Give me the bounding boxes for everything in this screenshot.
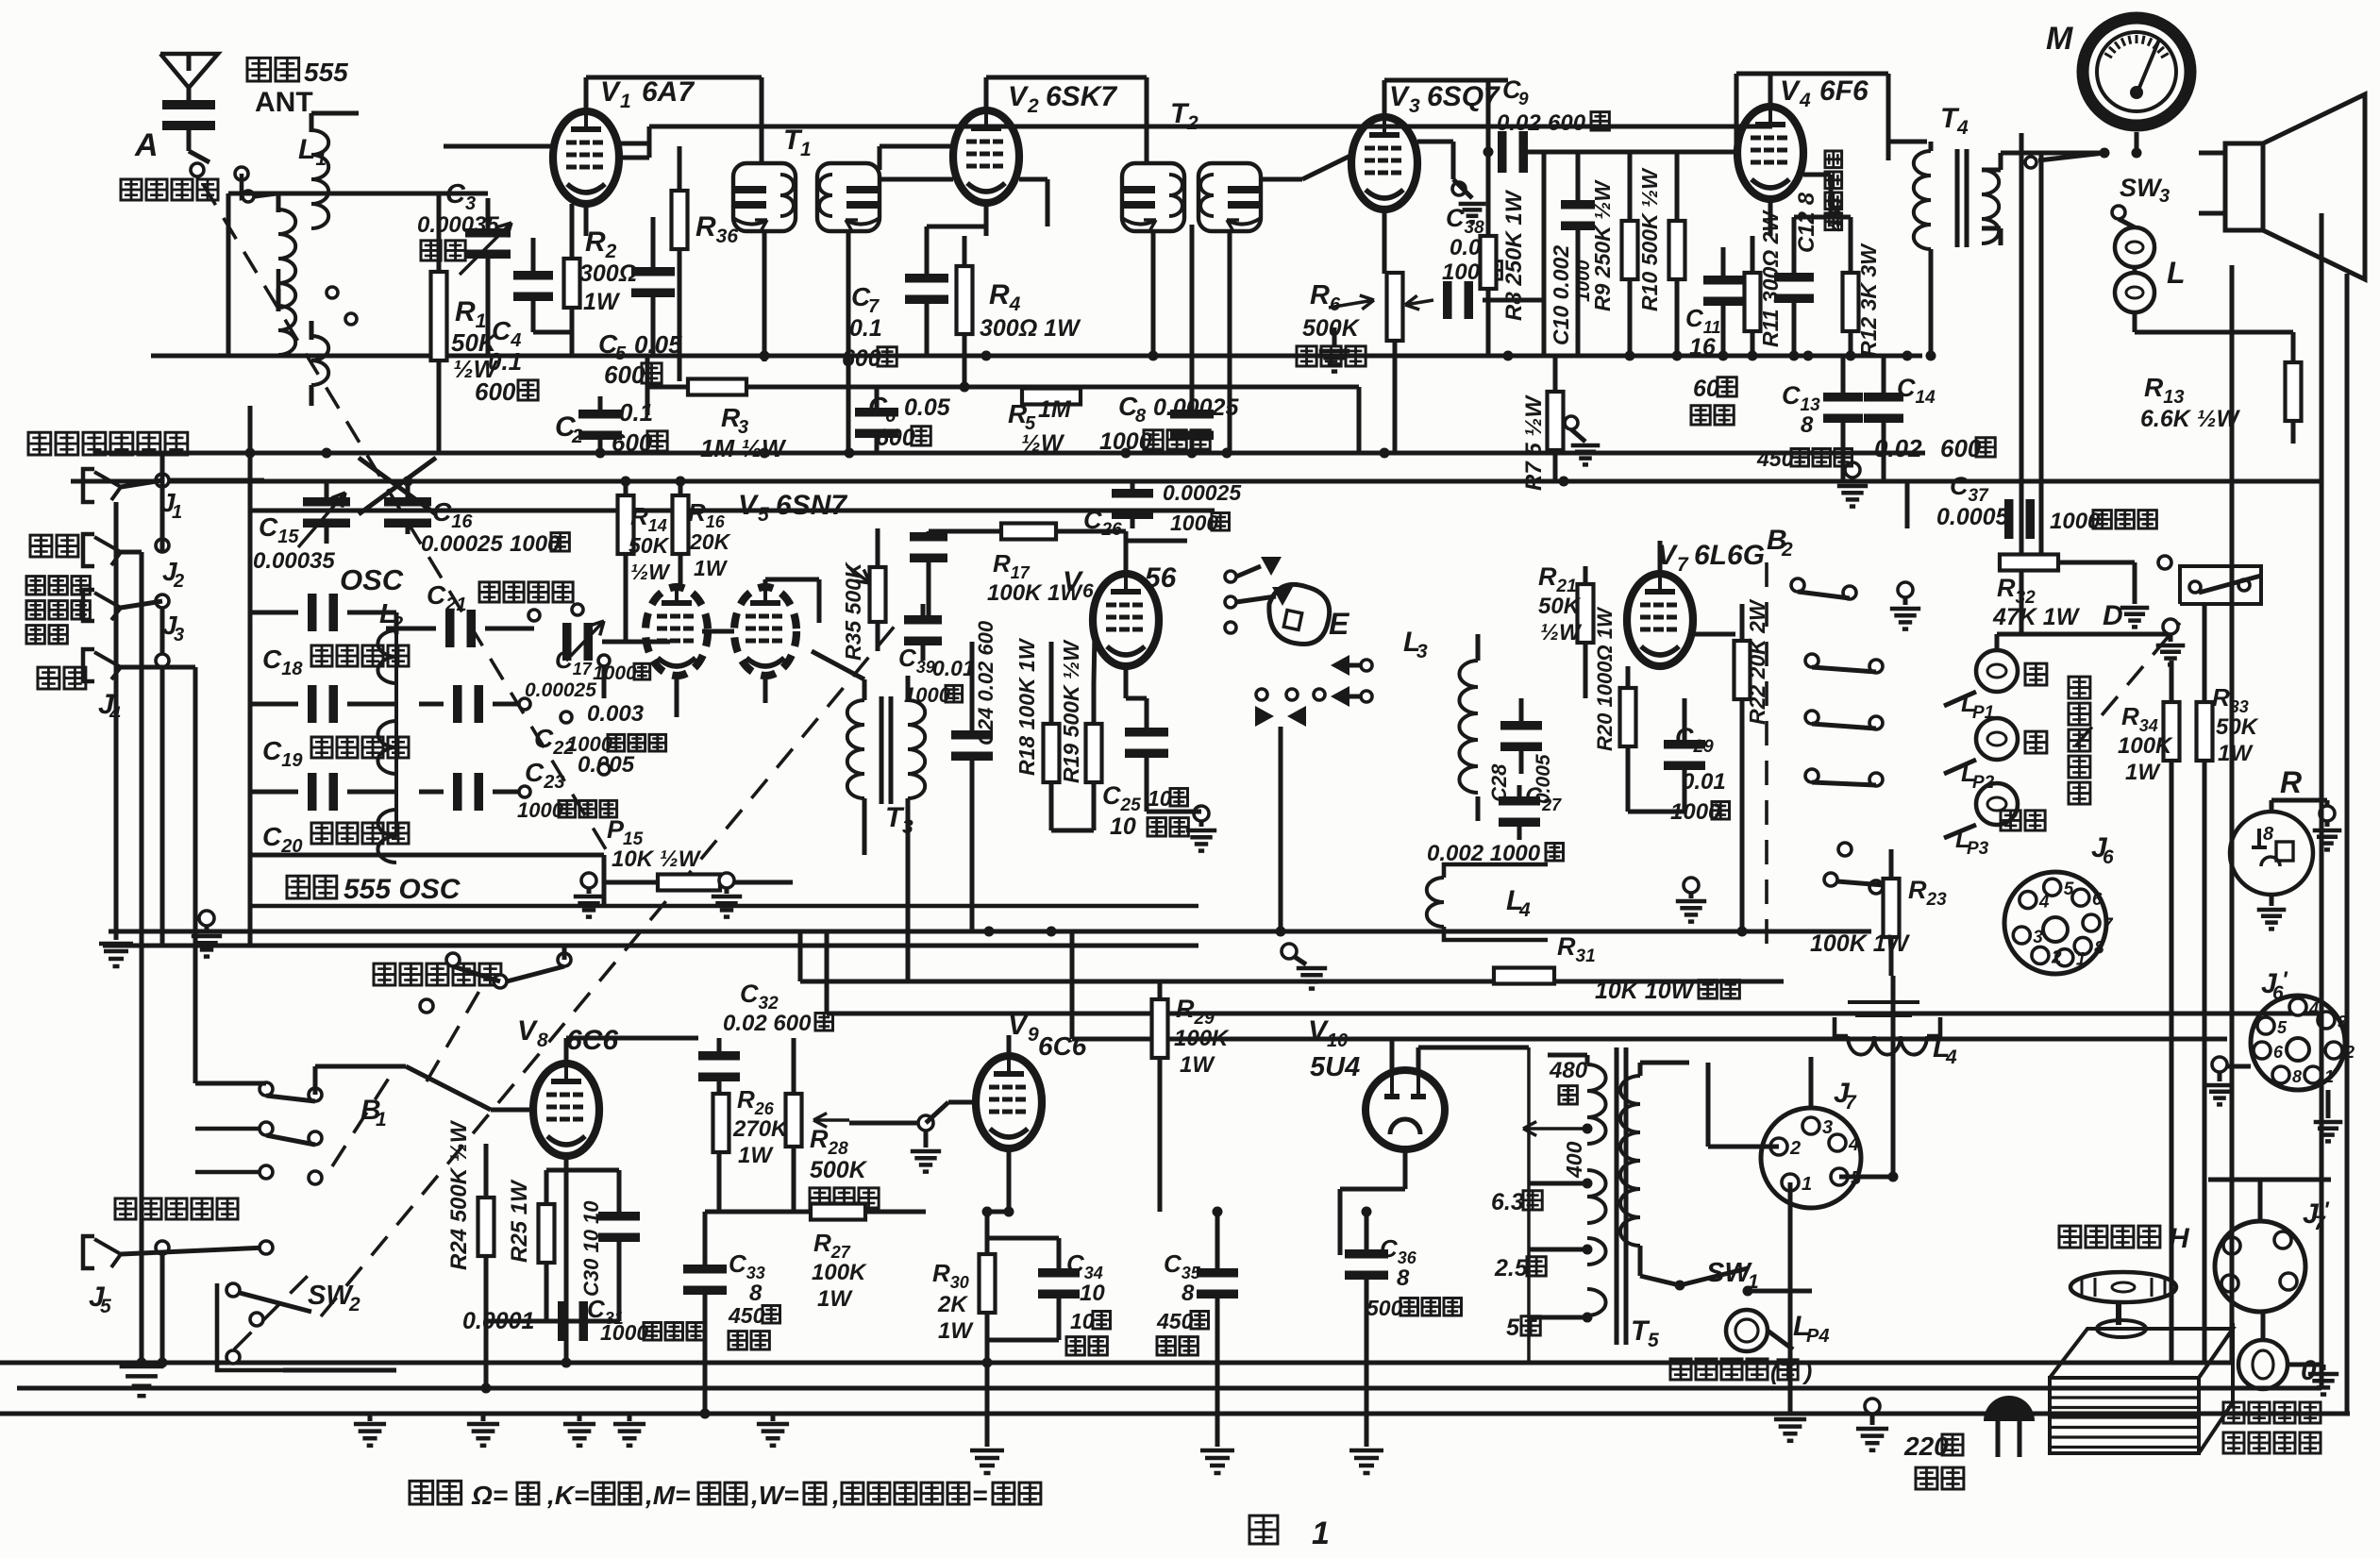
resistor R25	[539, 1204, 555, 1263]
resistor R32	[2000, 555, 2058, 571]
svg-text:=: =	[972, 1481, 987, 1510]
capacitor C13	[1823, 393, 1863, 402]
capacitor C25	[1125, 728, 1168, 737]
svg-text:10: 10	[1327, 1030, 1348, 1051]
tube V8 6C6	[533, 1064, 599, 1156]
choke L4	[1848, 1000, 1919, 1004]
svg-text:8: 8	[2094, 938, 2104, 958]
capacitor C22	[453, 685, 462, 723]
svg-text:450: 450	[1756, 446, 1794, 471]
resistor R8	[1481, 236, 1497, 289]
svg-text:,K=: ,K=	[546, 1481, 589, 1510]
tube V9 6C6	[976, 1056, 1042, 1148]
svg-text:3: 3	[2159, 186, 2170, 207]
svg-text:1: 1	[800, 139, 812, 160]
svg-text:1000: 1000	[904, 683, 951, 707]
resistor R5	[1022, 389, 1081, 405]
resistor R7	[1548, 392, 1564, 450]
svg-text:6: 6	[2273, 1043, 2284, 1062]
resistor R36	[672, 191, 688, 249]
wire bus right2	[827, 1012, 2321, 1016]
dashed gang line A	[203, 184, 609, 854]
svg-text:6L6G: 6L6G	[1694, 540, 1765, 571]
relay contacts bottom	[1255, 706, 1274, 727]
svg-text:3: 3	[174, 625, 184, 645]
resistor R20	[1620, 688, 1636, 746]
svg-text:Ω=: Ω=	[471, 1481, 508, 1510]
capacitor C36	[1345, 1249, 1388, 1259]
svg-text:1: 1	[376, 1109, 387, 1131]
potentiometer R35	[870, 567, 886, 622]
svg-text:10K ½W: 10K ½W	[612, 846, 702, 872]
lamp O	[2238, 1340, 2288, 1389]
resistor R3	[647, 385, 1359, 390]
capacitor C34	[1038, 1268, 1080, 1278]
ground under R28 arrow	[918, 1115, 933, 1131]
svg-text:2: 2	[348, 1294, 360, 1315]
svg-text:1: 1	[172, 502, 182, 523]
svg-text:0.02 600: 0.02 600	[723, 1011, 812, 1036]
ground right of R7	[1565, 416, 1578, 429]
wire bus right3	[1072, 1037, 2227, 1042]
label figure 1	[1249, 1516, 1278, 1544]
svg-text:6: 6	[2103, 846, 2114, 868]
label power lamp	[1670, 1359, 1768, 1380]
svg-text:V: V	[1063, 566, 1084, 597]
svg-text:C24 0.02 600: C24 0.02 600	[974, 620, 997, 745]
svg-text:20K: 20K	[689, 529, 731, 554]
svg-text:555: 555	[304, 58, 348, 87]
svg-text:2: 2	[1186, 112, 1198, 134]
svg-text:8: 8	[1801, 412, 1814, 438]
wire bottom bus 2	[17, 1386, 2321, 1391]
svg-text:,M=: ,M=	[645, 1481, 690, 1510]
svg-text:0.003: 0.003	[587, 701, 645, 727]
svg-text:V: V	[1389, 81, 1411, 112]
ground V7 cathode	[1684, 878, 1699, 893]
resistor R1	[431, 272, 447, 360]
svg-text:7: 7	[1845, 1092, 1857, 1114]
svg-text:50K: 50K	[629, 533, 670, 558]
label OSC coil	[287, 876, 337, 898]
resistor R24	[478, 1198, 494, 1256]
label recording out	[115, 1198, 238, 1219]
resistor R31	[1494, 968, 1554, 984]
resistor R33	[2197, 702, 2213, 761]
svg-text:R9 250K ½W: R9 250K ½W	[1590, 179, 1615, 311]
svg-text:R24 500K ½W: R24 500K ½W	[446, 1119, 472, 1270]
svg-text:0.1: 0.1	[849, 315, 882, 342]
lamp chain wires	[1995, 634, 2000, 650]
ground mid right	[1282, 944, 1297, 959]
resistor R19	[1086, 724, 1102, 782]
svg-text:V: V	[517, 1015, 539, 1047]
capacitor C5	[631, 267, 675, 276]
label note	[410, 1481, 461, 1504]
transformer T3	[847, 700, 864, 798]
jack J3	[26, 577, 90, 595]
jack J5	[83, 1236, 94, 1268]
svg-text:R10 500K ½W: R10 500K ½W	[1637, 167, 1662, 311]
svg-text:6F6: 6F6	[1819, 75, 1869, 107]
capacitor C28	[1500, 721, 1542, 730]
svg-text:100K: 100K	[1174, 1026, 1230, 1051]
svg-text:H: H	[2169, 1223, 2190, 1254]
row C19	[308, 685, 317, 723]
svg-text:C30 10 10: C30 10 10	[579, 1200, 603, 1297]
svg-text:5: 5	[758, 504, 769, 526]
resistor R17	[1001, 524, 1056, 540]
svg-text:0.05: 0.05	[904, 394, 951, 421]
svg-text:480: 480	[1549, 1058, 1588, 1083]
wire ground bus mid	[109, 930, 1871, 934]
ground lamp O	[2321, 1365, 2326, 1370]
svg-text:5: 5	[2277, 1018, 2288, 1037]
row C18	[308, 594, 317, 631]
svg-text:600: 600	[842, 345, 881, 372]
svg-text:6A7: 6A7	[642, 76, 695, 108]
svg-text:6.3: 6.3	[1491, 1189, 1524, 1215]
svg-text:1W: 1W	[1180, 1052, 1215, 1078]
svg-text:56: 56	[1145, 562, 1177, 594]
svg-text:M: M	[2046, 21, 2073, 57]
transformer T5 secondary	[1587, 1064, 1606, 1144]
svg-text:V: V	[600, 76, 622, 108]
potentiometer R28	[786, 1094, 802, 1147]
svg-text:2: 2	[173, 571, 184, 592]
osc box lines	[250, 853, 604, 858]
svg-text:1W: 1W	[583, 289, 621, 315]
svg-text:0.00035: 0.00035	[253, 548, 335, 574]
svg-text:½W: ½W	[1021, 430, 1065, 457]
svg-text:7: 7	[868, 296, 880, 317]
svg-text:0.05: 0.05	[634, 330, 682, 359]
svg-text:R: R	[2280, 765, 2302, 799]
resistor R4	[957, 266, 973, 334]
capacitor C29	[1664, 740, 1705, 749]
resistor R12	[1843, 273, 1859, 331]
transformer T5 core	[1615, 1047, 1619, 1345]
svg-text:1: 1	[1312, 1516, 1330, 1551]
speaker	[2225, 143, 2263, 230]
wire bus 2	[71, 479, 2321, 484]
svg-text:1000: 1000	[510, 531, 561, 557]
resistor R23	[1884, 879, 1900, 937]
svg-text:600: 600	[604, 360, 645, 389]
svg-text:4: 4	[1848, 1134, 1859, 1155]
svg-text:10K 10W: 10K 10W	[1595, 978, 1696, 1004]
svg-text:3: 3	[1416, 641, 1428, 662]
svg-text:1: 1	[2324, 1067, 2334, 1086]
resistor R11	[1745, 273, 1761, 331]
svg-text:270K: 270K	[732, 1116, 789, 1142]
svg-text:16: 16	[1689, 334, 1717, 360]
svg-text:,: ,	[831, 1481, 840, 1510]
ground near P15 right	[719, 873, 734, 888]
dashed gang line B	[321, 618, 901, 1316]
jack J1	[83, 469, 94, 502]
wire bottom bus 1	[0, 1361, 2232, 1365]
svg-text:OSC: OSC	[340, 563, 404, 596]
svg-text:4: 4	[1956, 117, 1969, 139]
wire bus osc bottom	[103, 944, 1198, 948]
tube V10 5U4	[1366, 1070, 1445, 1149]
svg-text:V: V	[1008, 81, 1030, 112]
svg-text:8: 8	[749, 1281, 763, 1306]
lamp LP1	[1976, 650, 2018, 692]
ground below V3	[1332, 327, 1337, 347]
lamp LP2	[1976, 718, 2018, 760]
capacitor C23	[453, 773, 462, 811]
resistor R22	[1735, 641, 1751, 699]
svg-text:10: 10	[1110, 813, 1136, 840]
label recording lamps	[2069, 677, 2090, 698]
resistor R16	[673, 495, 689, 554]
resistor R2	[564, 259, 580, 308]
svg-text:1: 1	[1802, 1174, 1812, 1195]
svg-text:C10 0.002: C10 0.002	[1549, 245, 1573, 345]
junction dots	[245, 448, 256, 459]
svg-text:SW: SW	[2120, 174, 2163, 202]
svg-text:6: 6	[1082, 580, 1094, 602]
svg-text:0.00025: 0.00025	[525, 679, 596, 701]
svg-text:L: L	[2167, 256, 2186, 290]
capacitor C12	[1774, 273, 1814, 282]
ground power	[1788, 1363, 1793, 1416]
wire AVC bus	[94, 451, 1925, 456]
svg-text:6SN7: 6SN7	[776, 490, 847, 521]
svg-text:5: 5	[100, 1296, 111, 1317]
tube V3 6SQ7	[1351, 117, 1417, 209]
svg-text:1: 1	[2076, 950, 2087, 970]
svg-text:R12 3K 3W: R12 3K 3W	[1856, 243, 1881, 357]
capacitor C26	[1112, 489, 1153, 498]
svg-text:3: 3	[1409, 95, 1420, 117]
svg-text:V: V	[738, 490, 760, 521]
label ANT	[247, 58, 299, 81]
svg-text:600: 600	[475, 377, 516, 406]
capacitor C27	[1499, 796, 1540, 806]
svg-text:8: 8	[537, 1030, 548, 1051]
svg-text:500: 500	[1366, 1296, 1403, 1320]
svg-text:100K: 100K	[2118, 733, 2173, 759]
svg-text:R19 500K ½W: R19 500K ½W	[1059, 639, 1083, 783]
potentiometer R6	[1387, 273, 1403, 341]
wire bus r31	[800, 980, 1784, 984]
svg-text:4: 4	[2308, 999, 2319, 1018]
svg-text:1000: 1000	[600, 1320, 648, 1345]
svg-text:½W: ½W	[1540, 620, 1583, 645]
osc switch contacts	[519, 698, 530, 710]
svg-text:450: 450	[1156, 1309, 1194, 1333]
capacitor C30	[598, 1212, 640, 1221]
jack J4	[38, 667, 86, 689]
wire right side verticals	[2320, 213, 2324, 1388]
svg-text:1W: 1W	[2125, 760, 2161, 785]
capacitor C31	[558, 1301, 567, 1341]
svg-text:300Ω 1W: 300Ω 1W	[980, 315, 1081, 342]
wire switch region	[242, 174, 278, 198]
svg-text:1: 1	[620, 91, 631, 112]
resistor R30	[980, 1254, 996, 1313]
row C20	[308, 773, 317, 811]
svg-text:C28: C28	[1487, 763, 1511, 802]
capacitor C35	[1197, 1268, 1238, 1278]
resistor R21	[1578, 584, 1594, 643]
wire crossing X	[359, 458, 436, 514]
svg-text:8: 8	[2292, 1067, 2302, 1086]
svg-text:C12 8: C12 8	[1794, 192, 1819, 253]
capacitor C33	[683, 1265, 727, 1274]
pickup E	[1269, 584, 1330, 644]
svg-text:R7 5 ½W: R7 5 ½W	[1521, 394, 1547, 491]
svg-text:½W: ½W	[630, 560, 671, 584]
coil L4a	[1427, 878, 1444, 927]
capacitor C14	[1864, 393, 1903, 402]
svg-text:SW: SW	[308, 1281, 354, 1311]
svg-text:4: 4	[1518, 899, 1531, 921]
wire vertical stubs midband	[798, 931, 803, 981]
svg-text:2: 2	[1789, 1138, 1801, 1159]
svg-text:1M ½W: 1M ½W	[700, 434, 787, 462]
svg-text:400: 400	[1562, 1141, 1586, 1179]
tube V7 6L6G	[1627, 574, 1693, 666]
svg-text:100K: 100K	[812, 1260, 867, 1285]
svg-text:6: 6	[2092, 890, 2103, 910]
svg-text:50K: 50K	[2216, 714, 2259, 740]
svg-text:5U4: 5U4	[1310, 1052, 1360, 1082]
svg-text:500K: 500K	[810, 1157, 868, 1183]
svg-text:5: 5	[1648, 1330, 1659, 1351]
svg-text:555 OSC: 555 OSC	[344, 874, 461, 905]
svg-text:0.1: 0.1	[488, 347, 522, 376]
svg-text:6C6: 6C6	[1038, 1031, 1087, 1061]
tube V4 6F6	[1737, 107, 1803, 199]
svg-text:R18 100K 1W: R18 100K 1W	[1014, 637, 1039, 776]
svg-text:P4: P4	[1806, 1326, 1829, 1347]
tube V2 6SK7	[953, 110, 1019, 203]
svg-text:300Ω: 300Ω	[579, 260, 637, 287]
svg-text:2K: 2K	[937, 1292, 968, 1317]
svg-text:8: 8	[1182, 1281, 1195, 1306]
svg-text:450: 450	[728, 1303, 765, 1328]
svg-text:6.6K ½W: 6.6K ½W	[2140, 406, 2241, 432]
resistor R27	[811, 1204, 865, 1220]
svg-text:7: 7	[1677, 554, 1689, 576]
antenna	[160, 54, 218, 88]
svg-text:R8 250K 1W: R8 250K 1W	[1501, 189, 1527, 321]
svg-text:500K: 500K	[1302, 315, 1361, 342]
resistor R10	[1669, 221, 1685, 279]
svg-text:0.00025: 0.00025	[421, 531, 503, 557]
svg-text:1W: 1W	[738, 1143, 774, 1168]
svg-text:1W: 1W	[694, 556, 729, 580]
svg-text:10: 10	[1148, 786, 1172, 811]
svg-text:E: E	[1329, 607, 1350, 641]
svg-text:6: 6	[885, 406, 897, 427]
ground B2	[1898, 582, 1913, 597]
resistor R14	[618, 495, 634, 554]
tube V1 6A7	[553, 111, 619, 204]
resistor R26	[713, 1094, 729, 1152]
svg-text:2.5: 2.5	[1494, 1255, 1529, 1282]
svg-text:4: 4	[1799, 90, 1811, 111]
lamps L	[2115, 227, 2154, 267]
wire bus 3	[250, 509, 1215, 513]
lamp LP4	[1726, 1310, 1768, 1351]
relay contacts right	[1331, 655, 1349, 676]
resistor R34	[2164, 702, 2180, 761]
svg-text:1W: 1W	[938, 1318, 974, 1344]
svg-text:R25 1W: R25 1W	[507, 1179, 532, 1263]
svg-text:50K: 50K	[1538, 594, 1582, 619]
resistor R29	[1152, 999, 1168, 1058]
svg-text:2: 2	[2051, 947, 2062, 967]
svg-text:10: 10	[1080, 1281, 1105, 1306]
terminal ground x1963	[1845, 462, 1860, 477]
svg-text:100K 1W: 100K 1W	[1810, 930, 1911, 957]
svg-text:V: V	[1780, 75, 1802, 107]
resistor R18	[1044, 724, 1060, 782]
power plug	[1984, 1396, 2035, 1421]
wire main B+ bus	[151, 354, 1922, 359]
svg-text:1W: 1W	[2218, 741, 2254, 766]
svg-text:2: 2	[1027, 95, 1039, 117]
resistor R9	[1622, 221, 1638, 279]
capacitor C17	[528, 610, 540, 621]
switch D	[2180, 566, 2261, 604]
svg-text:60: 60	[1693, 376, 1719, 402]
svg-text:0.0005: 0.0005	[1936, 504, 2010, 530]
wire bottom bus 3	[0, 1412, 2350, 1416]
switch bank B2	[1791, 578, 1804, 592]
svg-text:0.01: 0.01	[932, 656, 975, 680]
ground V6 cathode	[1194, 806, 1209, 821]
capacitor C11	[1703, 276, 1743, 285]
capacitor C7	[905, 274, 948, 283]
label input jack	[28, 432, 188, 455]
svg-text:1M: 1M	[1038, 396, 1072, 423]
lamp LP3	[1976, 783, 2018, 825]
svg-text:8: 8	[2263, 824, 2274, 845]
svg-text:0.01: 0.01	[1682, 769, 1726, 795]
wire left verticals	[114, 502, 119, 940]
svg-text:600: 600	[876, 425, 915, 451]
svg-text:4: 4	[1945, 1047, 1957, 1068]
svg-text:R20 1000Ω 1W: R20 1000Ω 1W	[1593, 606, 1617, 751]
capacitor C4	[513, 271, 553, 280]
svg-text:10: 10	[1070, 1309, 1095, 1333]
svg-text:A: A	[134, 127, 159, 163]
svg-text:8: 8	[1397, 1265, 1410, 1291]
svg-text:1000: 1000	[517, 798, 564, 822]
svg-text:47K 1W: 47K 1W	[1992, 604, 2081, 630]
svg-text:8: 8	[1135, 406, 1147, 427]
transformer T5 primary	[1620, 1076, 1640, 1246]
svg-text:7: 7	[2103, 915, 2114, 935]
svg-text:5: 5	[1506, 1315, 1520, 1341]
capacitor C6	[855, 408, 898, 417]
capacitor C8	[1170, 410, 1214, 419]
svg-text:1W: 1W	[817, 1286, 853, 1312]
svg-text:ANT: ANT	[255, 87, 313, 118]
ground V3 grid2	[1452, 182, 1466, 195]
svg-text:,W=: ,W=	[750, 1481, 799, 1510]
recorder head switch	[374, 963, 501, 985]
wire V1 box	[586, 75, 762, 80]
svg-text:600: 600	[1548, 110, 1586, 136]
svg-text:0.00025: 0.00025	[1153, 394, 1239, 421]
